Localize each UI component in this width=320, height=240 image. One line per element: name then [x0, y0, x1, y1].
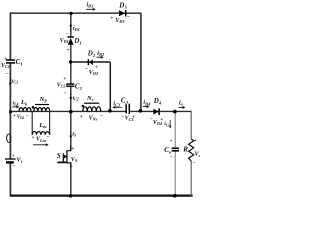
current arrow iC2: [69, 92, 79, 102]
svg-text:VC1: VC1: [1, 63, 10, 69]
node junction left rail at main wire: [9, 110, 12, 113]
transistor S (MOSFET): [57, 146, 78, 170]
svg-text:+: +: [132, 114, 135, 120]
svg-text:VS: VS: [71, 157, 78, 163]
wire top horizontal: [10, 12, 141, 14]
svg-text:−: −: [12, 165, 15, 170]
wire switch-node vertical between D1 and C2: [70, 45, 72, 85]
capacitor C1: [1, 56, 23, 77]
svg-text:−: −: [46, 134, 49, 140]
wire load branch upper: [190, 111, 192, 139]
svg-text:+: +: [170, 140, 173, 145]
svg-text:−: −: [192, 161, 195, 167]
svg-text:VNs: VNs: [89, 115, 98, 121]
wire Lm loop left vertical: [31, 111, 33, 134]
current arrow io: [179, 100, 186, 109]
current arrow iC3: [112, 101, 121, 109]
svg-text:+: +: [80, 114, 83, 120]
node junction C3-topwire vertical: [139, 109, 143, 113]
winding Np: [34, 96, 50, 111]
wire right vertical from top wire: [140, 13, 142, 111]
node junction output cap tap: [173, 110, 177, 114]
current arrow iLm: [33, 143, 49, 146]
wire output capacitor branch upper: [174, 111, 176, 148]
wire left rail mid: [9, 63, 11, 159]
diode D3: [110, 1, 130, 24]
diode D1: [60, 31, 82, 54]
wire output capacitor branch lower: [174, 151, 176, 196]
svg-text:iD2: iD2: [97, 51, 104, 57]
svg-text:VD3: VD3: [115, 18, 124, 24]
current arrow iCo: [164, 120, 171, 129]
node junction main wire at switch branch: [69, 110, 73, 114]
svg-text:+: +: [31, 135, 34, 141]
current arrow iC1: [9, 78, 18, 86]
svg-text:VD2: VD2: [89, 70, 98, 76]
svg-text:+: +: [160, 117, 163, 123]
svg-text:iC1: iC1: [12, 78, 18, 84]
svg-text:iD3: iD3: [87, 2, 94, 8]
node junction bottom wire at output cap: [173, 194, 177, 198]
polarity dot Ns: [82, 105, 85, 108]
wire MOSFET branch lower: [70, 163, 72, 196]
svg-text:+: +: [67, 48, 70, 54]
resistor R: [182, 138, 201, 166]
wire left rail lower: [9, 163, 11, 196]
polarity dot Np: [32, 106, 35, 109]
node junction D2 branch tap: [69, 60, 72, 63]
wire left rail upper: [9, 12, 11, 60]
diode D2: [85, 49, 98, 76]
wire MOSFET branch upper: [70, 111, 72, 150]
svg-text:−: −: [26, 114, 29, 119]
svg-text:−: −: [170, 155, 173, 160]
node junction Ns-D2: [108, 109, 112, 113]
wire main middle horizontal left part: [10, 110, 126, 112]
svg-text:+: +: [110, 16, 113, 22]
svg-text:−: −: [127, 15, 130, 21]
wire D2 branch vertical: [109, 62, 111, 111]
svg-text:iD1: iD1: [73, 26, 80, 32]
wire main middle horizontal right part: [129, 110, 191, 112]
svg-text:−: −: [70, 164, 73, 170]
capacitor C2: [57, 76, 83, 96]
voltage source Vi (battery): [5, 154, 23, 170]
svg-text:+: +: [194, 138, 197, 144]
wire D2 branch horizontal: [71, 61, 111, 63]
svg-text:−: −: [66, 31, 69, 37]
svg-text:iC2: iC2: [73, 96, 79, 102]
wire Lm loop right vertical: [49, 111, 51, 134]
current arrow iD1: [69, 23, 79, 32]
inductor Lm: [31, 122, 49, 143]
wire switch-node vertical (D1/C2 chain) upper: [70, 13, 72, 37]
wire bottom horizontal: [10, 195, 193, 197]
svg-text:−: −: [5, 71, 8, 77]
node junction bottom wire at switch: [69, 194, 73, 198]
svg-text:VLk: VLk: [17, 115, 25, 120]
svg-text:+: +: [63, 76, 66, 82]
winding Ns: [80, 95, 103, 122]
small loop marker on left rail: [7, 134, 11, 142]
capacitor C3: [121, 97, 135, 122]
svg-text:VD1: VD1: [60, 38, 69, 44]
svg-text:VLm: VLm: [36, 137, 47, 143]
inductor Lk: [13, 99, 31, 120]
svg-text:−: −: [63, 90, 66, 96]
svg-text:+: +: [95, 64, 98, 70]
current arrow iD2: [97, 51, 105, 59]
current arrow iD4: [143, 100, 150, 108]
capacitor Co: [164, 140, 179, 161]
svg-text:+: +: [71, 146, 74, 152]
current arrow iS: [69, 130, 77, 139]
node junction top of D1 branch: [69, 12, 72, 15]
diode D4: [150, 97, 164, 126]
current arrow iD3: [86, 2, 96, 11]
svg-text:−: −: [100, 113, 103, 119]
current arrow iLk: [12, 100, 19, 108]
svg-text:R: R: [182, 145, 188, 153]
wire switch-node vertical between C2 and main wire: [70, 86, 72, 111]
svg-text:S: S: [57, 152, 61, 160]
svg-text:iLk: iLk: [13, 100, 19, 106]
svg-text:−: −: [85, 66, 88, 72]
wire load branch lower: [190, 161, 192, 196]
svg-text:+: +: [13, 114, 16, 119]
svg-text:io: io: [179, 100, 183, 106]
svg-text:VC2: VC2: [57, 82, 66, 88]
